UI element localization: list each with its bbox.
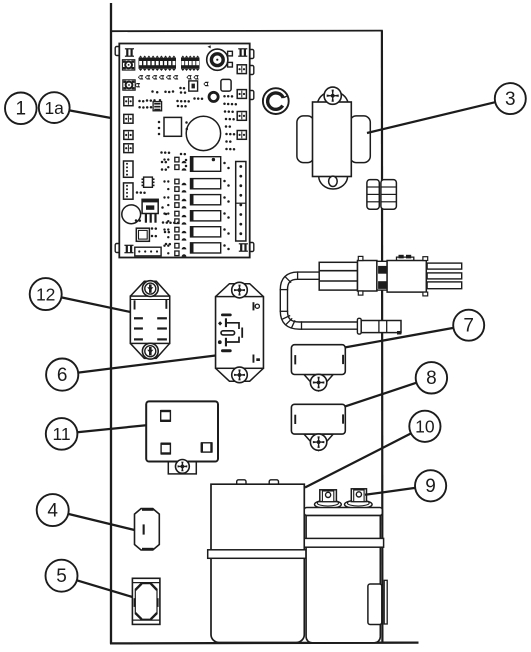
- svg-text:7: 7: [463, 316, 474, 337]
- svg-text:10: 10: [415, 417, 435, 437]
- svg-text:1a: 1a: [44, 98, 64, 118]
- svg-text:11: 11: [53, 424, 71, 444]
- svg-text:6: 6: [57, 365, 68, 386]
- svg-text:12: 12: [36, 284, 55, 304]
- svg-text:5: 5: [56, 566, 67, 587]
- svg-text:4: 4: [47, 500, 58, 521]
- svg-text:8: 8: [426, 368, 437, 389]
- svg-text:1: 1: [16, 99, 27, 120]
- svg-text:3: 3: [505, 89, 516, 110]
- svg-text:9: 9: [425, 476, 436, 497]
